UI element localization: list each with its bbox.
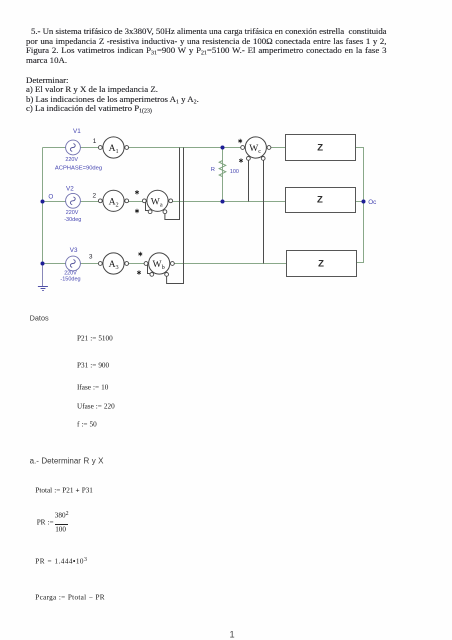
svg-text:V3: V3 [70,247,78,254]
svg-text:Oc: Oc [368,199,376,206]
svg-text:V2: V2 [66,185,74,192]
svg-text:3: 3 [89,253,93,260]
svg-text:1: 1 [93,138,97,145]
svg-text:-150deg: -150deg [60,277,80,283]
svg-text:V1: V1 [73,128,81,135]
svg-text:-30deg: -30deg [64,217,81,223]
svg-text:ACPHASE=90deg: ACPHASE=90deg [55,165,102,171]
svg-text:100: 100 [230,169,239,175]
svg-text:220V: 220V [65,157,78,163]
svg-text:Z: Z [317,143,323,154]
svg-text:O: O [48,194,53,201]
svg-text:R: R [211,167,215,173]
svg-text:Z: Z [317,195,323,206]
svg-text:220V: 220V [66,210,79,216]
svg-text:Z: Z [318,258,324,269]
svg-text:2: 2 [93,192,97,199]
